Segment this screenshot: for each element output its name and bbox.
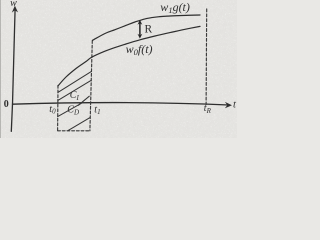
hatch CD line 2 [68, 118, 90, 131]
svg-text:0: 0 [4, 99, 9, 110]
curve w0 f(t) [58, 26, 200, 86]
y-axis [11, 9, 15, 132]
hatch CI corner line [78, 96, 89, 105]
hatch CD line 1 [58, 103, 82, 117]
paper background [0, 0, 237, 138]
svg-text:w: w [10, 0, 17, 9]
left page edge [0, 0, 1, 138]
svg-text:w1g(t): w1g(t) [160, 0, 190, 15]
hatch CI line 2 [58, 80, 91, 100]
y-axis arrowhead [12, 6, 18, 13]
R gap arrow (double headed) [139, 23, 141, 36]
curve w1 g(t) [93, 15, 201, 40]
dashed line t1 [90, 41, 92, 131]
x-axis [13, 103, 229, 105]
dashed bottom edge of CD box [58, 130, 90, 132]
dashed line tR [205, 9, 208, 105]
x-axis arrowhead [225, 102, 232, 108]
dashed line t0 [57, 85, 59, 130]
svg-text:R: R [145, 24, 153, 36]
hatch CI line 1 [58, 72, 91, 93]
svg-text:w0f(t): w0f(t) [126, 42, 153, 57]
